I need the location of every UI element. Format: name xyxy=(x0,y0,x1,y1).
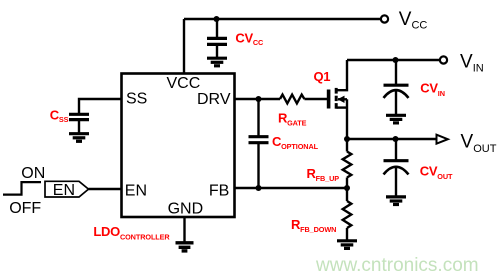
svg-text:SS: SS xyxy=(126,91,147,108)
ground at CVIN xyxy=(386,115,406,123)
ground at CSS xyxy=(69,134,89,142)
wire DRV pin to R_GATE xyxy=(235,98,281,100)
capacitor CSS plates xyxy=(69,114,89,119)
wire R_FB_UP to FB node xyxy=(346,178,348,189)
svg-text:EN: EN xyxy=(125,182,147,199)
capacitor CVIN top plate xyxy=(384,84,409,87)
svg-text:CVCC: CVCC xyxy=(235,30,264,47)
svg-text:VCC: VCC xyxy=(167,75,201,92)
wire CSS to ground xyxy=(78,120,80,134)
wire CVCC to ground xyxy=(216,44,218,58)
ground at CVOUT xyxy=(386,197,406,205)
terminal VIN circle xyxy=(440,56,447,63)
svg-text:VIN: VIN xyxy=(460,52,484,75)
transistor Q1 body arrow xyxy=(338,96,345,103)
capacitor CVCC lead xyxy=(216,19,218,38)
svg-text:VOUT: VOUT xyxy=(461,131,497,155)
wire VIN rail xyxy=(347,59,440,61)
terminal VOUT open arrow xyxy=(437,135,448,144)
resistor R1 R_GATE xyxy=(280,95,304,104)
capacitor C_OPTIONAL plates xyxy=(249,137,269,143)
capacitor CVOUT curved plate xyxy=(384,167,409,175)
svg-text:CVOUT: CVOUT xyxy=(420,164,453,182)
node junction dot VIN rail CVIN xyxy=(393,57,399,63)
svg-text:RFB_DOWN: RFB_DOWN xyxy=(291,217,336,234)
wire FB node to R_FB_DOWN xyxy=(346,188,348,201)
op-amp U1 : LDO controller box xyxy=(122,74,235,218)
svg-text:Q1: Q1 xyxy=(314,69,331,84)
ground at GND pin xyxy=(176,243,194,251)
node junction dot DRV C_OPTIONAL xyxy=(256,96,262,102)
capacitor CVOUT top plate xyxy=(384,159,409,162)
svg-text:VCC: VCC xyxy=(399,9,428,32)
wire Q1 source down to VOUT rail xyxy=(346,99,348,139)
node junction dot FB C_OPTIONAL xyxy=(256,185,262,191)
svg-text:ON: ON xyxy=(21,165,45,182)
capacitor CVCC plates xyxy=(207,38,227,44)
svg-text:GND: GND xyxy=(168,200,204,217)
transistor Q1 source lead xyxy=(337,106,348,108)
svg-text:CSS: CSS xyxy=(50,107,69,124)
resistor R2 R_FB_UP leads xyxy=(346,139,348,152)
svg-text:RFB_UP: RFB_UP xyxy=(307,166,340,183)
wire VCC pin to top rail xyxy=(183,19,185,74)
svg-text:www.cntronics.com: www.cntronics.com xyxy=(315,255,479,276)
wire FB pin to feedback node xyxy=(235,187,348,189)
ground at R_FB_DOWN xyxy=(337,241,357,249)
wire EN tag to EN pin xyxy=(89,188,122,190)
transistor Q1 body lead xyxy=(338,98,347,100)
svg-text:EN: EN xyxy=(53,182,75,199)
svg-text:RGATE: RGATE xyxy=(278,111,307,128)
wire R_GATE to gate of Q1 xyxy=(304,98,327,100)
node junction dot FB resistor divider xyxy=(344,185,350,191)
capacitor CVOUT top lead xyxy=(395,139,397,160)
wire SS pin to CSS xyxy=(79,99,122,114)
wire top rail VCC net xyxy=(184,18,381,20)
svg-text:FB: FB xyxy=(209,182,229,199)
wire CVOUT to ground xyxy=(395,167,397,197)
transistor Q2 : Q1 NMOS gate bar xyxy=(327,90,331,109)
terminal VCC circle xyxy=(381,15,388,22)
wire R_FB_DOWN to ground xyxy=(346,228,348,241)
resistor R_FB_UP zigzag xyxy=(343,152,352,178)
capacitor C3 C_OPTIONAL top lead xyxy=(257,99,259,136)
wire VOUT rail xyxy=(347,138,437,140)
capacitor CVIN curved plate xyxy=(384,90,409,98)
node junction dot VOUT rail at Q1 source xyxy=(344,136,350,142)
wire GND pin to ground xyxy=(183,217,185,243)
wire C_OPTIONAL to FB wire xyxy=(257,143,259,188)
capacitor CVIN top lead xyxy=(395,60,397,84)
ground at CVCC xyxy=(207,58,227,66)
transistor Q1 drain lead xyxy=(337,60,348,90)
resistor R3 R_FB_DOWN zigzag xyxy=(343,201,352,228)
svg-text:OFF: OFF xyxy=(9,200,41,217)
svg-text:LDOCONTROLLER: LDOCONTROLLER xyxy=(93,224,170,242)
svg-text:CVIN: CVIN xyxy=(420,81,445,99)
svg-text:COPTIONAL: COPTIONAL xyxy=(272,134,319,151)
node junction dot top rail CVCC xyxy=(214,16,220,22)
wire CVIN to ground xyxy=(395,90,397,115)
node junction dot VOUT rail CVOUT xyxy=(393,136,399,142)
EN square wave ON/OFF xyxy=(3,182,41,195)
EN tag pentagon xyxy=(45,181,89,197)
transistor Q1 channel segments xyxy=(335,88,338,109)
svg-text:DRV: DRV xyxy=(197,91,231,108)
